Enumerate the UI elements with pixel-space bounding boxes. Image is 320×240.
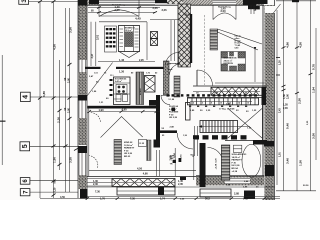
svg-text:2,00: 2,00	[67, 108, 70, 113]
terrace steps band right	[200, 189, 231, 197]
svg-text:3,50: 3,50	[69, 27, 73, 33]
kitchen center unit	[114, 77, 131, 105]
grid line 7	[30, 191, 78, 193]
stair bottom line	[187, 104, 258, 106]
svg-text:+2,38: +2,38	[232, 171, 238, 173]
svg-text:90 36: 90 36	[303, 185, 309, 187]
grid bubbles column	[19, 0, 78, 196]
pointer line with arrow	[254, 50, 256, 82]
bottom dim line	[40, 198, 280, 200]
grid bubble 5	[20, 142, 30, 151]
svg-text:PARKETT: PARKETT	[124, 147, 135, 150]
wall kind right (thin)	[156, 150, 158, 176]
dining inner dim line	[95, 22, 97, 66]
tick marks top chain	[97, 7, 157, 14]
svg-text:2,00: 2,00	[221, 9, 227, 13]
pillow blob row	[193, 135, 247, 139]
label box D03	[139, 140, 147, 147]
svg-text:1,94: 1,94	[312, 87, 316, 93]
svg-text:2,00: 2,00	[286, 94, 289, 99]
svg-text:5 1,88: 5 1,88	[169, 99, 175, 101]
window swing arcs left (tilt symbol)	[99, 10, 139, 17]
dim line x297	[296, 0, 298, 191]
dim line kind bottom	[89, 169, 196, 171]
kitchen bottom right black block	[149, 100, 158, 106]
hall top dash row	[167, 94, 184, 96]
door arc hall-kitchen	[170, 64, 181, 75]
walk arrow lower flight	[202, 126, 250, 128]
wall hall left	[156, 95, 160, 145]
svg-text:WM: WM	[170, 158, 174, 160]
wall kind/schlafen vertical	[200, 143, 206, 187]
dim line y61	[98, 61, 155, 63]
bath cross diagonals	[228, 109, 262, 139]
top wall band right section	[183, 0, 213, 5]
svg-text:3,26: 3,26	[162, 8, 168, 12]
svg-text:1,50: 1,50	[299, 160, 303, 166]
svg-text:4,45: 4,45	[135, 17, 141, 21]
tick marks left chains	[38, 0, 72, 197]
bedroom label block	[232, 153, 248, 173]
bottom dim line 2	[87, 196, 280, 198]
chair at table end V	[119, 52, 139, 58]
grid bubble 4	[21, 92, 31, 101]
wall kitchen/kind	[88, 106, 161, 109]
table marks right col	[135, 29, 139, 47]
svg-text:4,90: 4,90	[143, 172, 149, 176]
chair ellipse	[242, 144, 261, 177]
left wall top cap black	[78, 0, 87, 6]
svg-text:1,76: 1,76	[100, 198, 105, 201]
svg-text:UK 2,26: UK 2,26	[169, 117, 178, 119]
svg-text:14,5: 14,5	[243, 198, 248, 201]
black blob bottom right	[244, 191, 255, 200]
bottom wall band left section (window)	[87, 178, 112, 180]
tread digits	[193, 102, 249, 105]
chairs left columns	[106, 28, 116, 48]
right margin dimension chains	[276, 0, 316, 191]
small box above label	[233, 145, 241, 152]
grid bubble 6	[20, 178, 30, 185]
left wall band	[78, 0, 87, 60]
entry divider line	[174, 148, 176, 176]
svg-text:5,24 m²: 5,24 m²	[169, 108, 177, 111]
bottom connector line	[276, 190, 316, 192]
door frame rect	[186, 103, 191, 121]
dim line x316	[315, 28, 317, 160]
hall top texts	[167, 64, 180, 72]
grid line 5	[30, 145, 78, 147]
wall hall/kind horizontal	[160, 130, 177, 133]
svg-text:2,30: 2,30	[93, 183, 98, 186]
bottom dim texts row	[60, 191, 248, 201]
top wall chimney segment	[167, 0, 183, 4]
top connector line	[276, 0, 316, 2]
svg-text:38,5: 38,5	[185, 13, 191, 17]
door living-hall arc	[197, 70, 213, 86]
right wall band	[262, 5, 264, 185]
svg-text:9,42 m²: 9,42 m²	[115, 80, 122, 83]
svg-text:1,30: 1,30	[119, 70, 125, 74]
svg-text:2,06: 2,06	[283, 107, 288, 110]
lower flight striped	[200, 121, 238, 133]
left wall window 2	[78, 101, 80, 119]
window swing arcs right (tilt symbol)	[213, 13, 236, 20]
kitchen unit divider lines	[114, 83, 131, 99]
svg-text:Gard.: Gard.	[168, 69, 174, 71]
svg-text:2,43: 2,43	[279, 108, 282, 113]
wall stair hall bottom	[187, 97, 265, 99]
right margin dimension texts (rotated)	[279, 42, 316, 187]
entry small blob	[179, 158, 182, 162]
svg-text:5: 5	[22, 144, 29, 148]
svg-text:12,9 m²: 12,9 m²	[125, 29, 132, 32]
bottom wall window right	[225, 178, 250, 185]
sink rects	[116, 95, 121, 102]
black block right of kind	[154, 140, 161, 148]
grid line 3	[29, 1, 78, 3]
pier top-middle black	[155, 0, 167, 3]
svg-text:14,25 m²: 14,25 m²	[232, 156, 241, 159]
svg-text:2,50: 2,50	[298, 98, 302, 104]
left wall corner pier black	[80, 189, 88, 199]
stacked boxes right	[151, 32, 158, 39]
svg-text:4,50: 4,50	[60, 196, 65, 199]
dining top inner line	[99, 21, 147, 23]
vertical dim line entrance	[193, 140, 195, 180]
svg-text:1,90: 1,90	[53, 157, 57, 163]
kind inner face line	[88, 109, 90, 177]
svg-text:F 30: F 30	[169, 114, 174, 116]
dim line x53.5	[53, 2, 55, 199]
tread number dash row	[187, 94, 257, 96]
sheet edge line x2	[1, 55, 3, 165]
svg-text:ESTRICH: ESTRICH	[224, 63, 234, 65]
door arc dining-hall	[166, 53, 179, 66]
kitchen left texts	[89, 75, 109, 104]
dim line x40	[39, 2, 41, 199]
svg-text:2,36: 2,36	[57, 117, 61, 123]
svg-text:1,90: 1,90	[99, 108, 105, 112]
window swing arc kind	[91, 113, 101, 123]
dim line x65.5	[65, 8, 67, 192]
ticks bottom chain	[86, 197, 267, 200]
table text block	[125, 27, 136, 31]
svg-text:10: 10	[220, 103, 222, 105]
door leaf diagonal kitchen	[87, 63, 113, 97]
living label block	[224, 58, 238, 66]
svg-text:BD 04: BD 04	[232, 167, 239, 170]
hob burners	[118, 86, 125, 93]
grid line 6	[30, 180, 78, 182]
ceiling peak lines	[101, 117, 143, 138]
wall black face living side	[190, 14, 192, 63]
left wall pier 2	[78, 146, 87, 153]
hall label block	[169, 105, 179, 119]
svg-text:28,61 m²: 28,61 m²	[224, 59, 233, 62]
wall dining/kitchen	[85, 67, 167, 69]
chimney wall dining/living	[178, 4, 191, 67]
roof overhang dashed line	[204, 15, 206, 85]
svg-text:3,46: 3,46	[286, 158, 290, 164]
top wall band right of window	[236, 0, 264, 5]
fireplace text block	[235, 36, 242, 50]
svg-text:16: 16	[247, 103, 249, 105]
grid bubble 3	[19, 0, 29, 4]
right wall window gap	[265, 6, 275, 13]
svg-text:4: 4	[23, 95, 30, 99]
window swing arc kind lower	[89, 156, 98, 169]
exterior walls	[78, 0, 277, 200]
top wall band left section	[87, 0, 99, 5]
dim line above stair	[193, 91, 260, 93]
door arc kitchen lower	[161, 95, 170, 105]
dim line x59.5	[59, 60, 61, 170]
interior walls	[85, 4, 267, 187]
annotation row below stair	[190, 110, 257, 112]
sideboard striped	[210, 29, 218, 50]
svg-text:FLIESEN: FLIESEN	[169, 112, 179, 114]
door living-hall leaf	[196, 70, 198, 86]
svg-text:ARBEIT: ARBEIT	[139, 87, 142, 95]
svg-text:FLUR 04: FLUR 04	[169, 105, 179, 108]
svg-text:BD 03: BD 03	[124, 156, 131, 158]
dining set outline	[105, 26, 117, 52]
svg-text:F 30: F 30	[124, 150, 129, 152]
window jamb lines top right	[250, 5, 252, 14]
bottom wall inner face	[87, 176, 196, 178]
svg-text:2,26: 2,26	[153, 6, 159, 10]
svg-text:5,76: 5,76	[312, 64, 316, 70]
door frame lines entry	[194, 126, 196, 156]
svg-text:8: 8	[211, 103, 212, 105]
svg-text:3,47: 3,47	[91, 53, 94, 58]
hall label black square	[172, 108, 176, 112]
grid bubble 7	[20, 189, 30, 196]
left wall face lines	[77, 0, 79, 198]
svg-text:UK 2,26: UK 2,26	[124, 153, 133, 155]
couch group outline	[221, 52, 246, 72]
svg-text:3,55: 3,55	[69, 157, 73, 163]
grid line 4	[30, 96, 78, 98]
kitchen (KOCHEN)	[87, 59, 180, 106]
dim line top y12.4	[88, 11, 155, 13]
svg-text:17 Stg: 17 Stg	[219, 108, 226, 111]
svg-text:1,46: 1,46	[119, 58, 125, 62]
svg-text:2,88: 2,88	[234, 193, 239, 196]
side rect striped	[147, 140, 152, 161]
annotation row above stair	[196, 93, 248, 95]
right wall pier black 2	[265, 165, 274, 176]
svg-text:2,20: 2,20	[54, 187, 57, 192]
tread number ticks	[189, 106, 247, 107]
dim line below wall	[89, 111, 160, 113]
interior line top middle	[150, 19, 178, 21]
svg-text:4,50: 4,50	[299, 42, 303, 48]
left wall window 1	[78, 60, 80, 72]
dim line top y7.5	[88, 7, 160, 9]
kitchen counter striped	[136, 72, 144, 105]
terrace steps band left	[117, 187, 175, 195]
left wall window 3	[78, 153, 80, 175]
top wall inner face line	[87, 4, 183, 6]
svg-text:UK 2,26: UK 2,26	[232, 165, 241, 167]
pier right of stair	[262, 87, 267, 105]
ticks on kind dim line	[88, 110, 159, 113]
left margin dimension chains	[0, 0, 72, 198]
svg-text:4,50: 4,50	[53, 44, 57, 50]
svg-text:D 03: D 03	[140, 143, 145, 145]
bottom wall black segment entry	[180, 177, 186, 180]
svg-text:3: 3	[21, 0, 28, 3]
svg-text:4,96: 4,96	[286, 42, 290, 48]
svg-text:3,00: 3,00	[312, 133, 316, 139]
bedroom bottom dim texts	[226, 181, 259, 189]
svg-text:6: 6	[202, 103, 203, 105]
left margin dimension texts (rotated)	[42, 27, 73, 193]
svg-text:5,46: 5,46	[286, 123, 290, 129]
table hatch blob	[125, 32, 133, 48]
left wall pier black	[78, 95, 87, 101]
svg-text:2,00: 2,00	[67, 78, 70, 83]
svg-text:2,00: 2,00	[115, 8, 121, 12]
svg-text:1,74: 1,74	[160, 198, 165, 201]
top right tick blob	[292, 0, 299, 2]
entry black square	[173, 160, 176, 163]
pier top-left black	[89, 0, 99, 4]
wall kitchen/hall	[164, 61, 170, 95]
row of dim texts below dining wall	[94, 72, 158, 77]
kind label block	[124, 142, 135, 158]
svg-text:14: 14	[238, 102, 240, 105]
entry appliance labels	[170, 156, 175, 166]
bottom wall outer face	[87, 186, 275, 188]
svg-text:2,95: 2,95	[139, 59, 144, 62]
dining table	[119, 26, 140, 52]
couch hatched seats	[222, 52, 228, 58]
dim line x310.5	[310, 0, 312, 191]
wardrobe striped kind	[114, 140, 122, 165]
bedroom (SCHLAFEN)	[170, 135, 261, 188]
svg-text:3,01: 3,01	[96, 34, 100, 40]
stair flight treads	[188, 98, 259, 105]
svg-text:PARKETT: PARKETT	[232, 159, 243, 162]
door arc hall-kind	[177, 133, 193, 149]
bottom window strip with mullions	[112, 179, 175, 187]
tick marks right chains	[276, 47, 313, 95]
dim line x283.5	[283, 0, 285, 191]
top margin annotations	[88, 3, 281, 20]
svg-text:F 30: F 30	[232, 162, 237, 164]
bottom wall right of strip	[196, 176, 264, 186]
stair walk line	[190, 101, 252, 103]
svg-text:1,26: 1,26	[279, 60, 282, 65]
svg-text:7,30: 7,30	[95, 191, 100, 194]
svg-text:KIND 02: KIND 02	[124, 142, 133, 144]
svg-text:+2,38 -0,20: +2,38 -0,20	[216, 158, 218, 170]
svg-text:SCHLAFEN 01: SCHLAFEN 01	[232, 153, 248, 156]
window top-left opening lines	[99, 0, 155, 2]
living room (WOHNEN)	[197, 15, 262, 86]
appliance column	[145, 76, 156, 93]
fireplace sight lines	[218, 29, 263, 50]
svg-text:4,90: 4,90	[122, 107, 128, 111]
svg-text:7,30: 7,30	[130, 198, 135, 201]
door arc hall-schlafen	[208, 148, 224, 164]
svg-text:WOHNEN 05: WOHNEN 05	[224, 58, 238, 60]
sink side marks	[110, 79, 113, 96]
roof cut diagonal top right	[273, 4, 281, 14]
wall bath left vertical	[262, 100, 264, 140]
door gap dining-kitchen wall	[101, 67, 117, 70]
hall (DIELE/FLUR)	[162, 64, 198, 157]
dining room (ESSEN)	[91, 22, 179, 66]
dim line x147 dining	[146, 22, 148, 60]
shelf x-row above stairs	[211, 87, 265, 95]
wardrobe striped schlafen	[221, 145, 229, 180]
dim line x69.5	[69, 8, 71, 192]
svg-text:12,34 m²: 12,34 m²	[124, 144, 133, 147]
bottom margin annotations	[40, 180, 280, 201]
svg-text:1,01: 1,01	[279, 152, 282, 157]
fold dash left edge	[0, 121, 6, 122]
svg-text:4: 4	[193, 102, 194, 105]
tick pier left low	[74, 148, 79, 151]
svg-text:4,50: 4,50	[137, 166, 143, 170]
right wall pier black	[264, 141, 274, 147]
table marks left col	[120, 29, 124, 47]
svg-text:2,35: 2,35	[178, 183, 183, 186]
child room (KIND)	[74, 107, 196, 176]
svg-text:6,80: 6,80	[42, 91, 46, 97]
wall bath/schlafen	[253, 140, 267, 145]
pier top-right black	[243, 0, 248, 5]
window top-right opening lines	[213, 0, 236, 2]
wardrobe striped	[174, 76, 180, 97]
staircase	[187, 87, 266, 138]
svg-text:36,5: 36,5	[205, 198, 210, 201]
wall below living (hall top)	[215, 82, 264, 84]
